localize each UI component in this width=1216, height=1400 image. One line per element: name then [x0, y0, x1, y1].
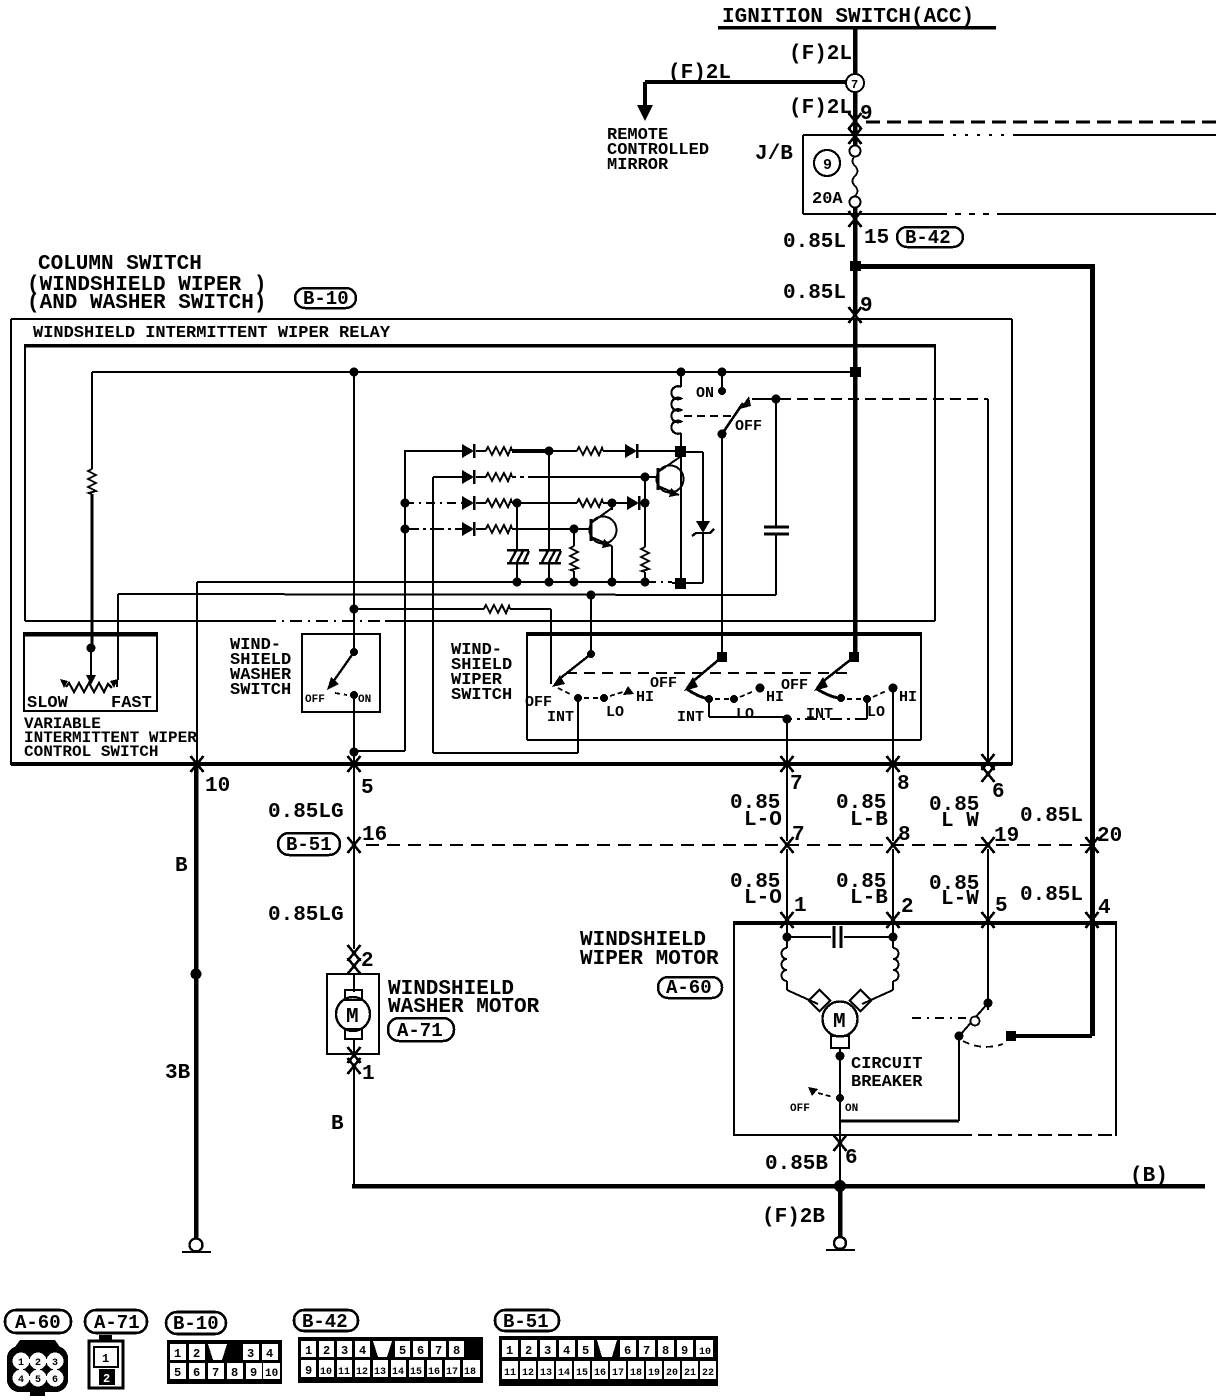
node base Q2 — [570, 525, 579, 534]
svg-text:10: 10 — [320, 1367, 332, 1378]
connector mark into J/B — [849, 128, 862, 144]
svg-text:13: 13 — [374, 1367, 386, 1378]
resistor R2 — [577, 447, 603, 455]
wire to remote mirror — [643, 80, 847, 106]
svg-text:19: 19 — [648, 1368, 660, 1379]
svg-text:2: 2 — [361, 950, 374, 973]
pole2 HI contact — [756, 684, 765, 693]
zener branch wire — [681, 452, 703, 521]
wire HI label upper — [836, 792, 888, 832]
svg-text:7: 7 — [643, 1344, 650, 1358]
svg-text:20A: 20A — [812, 190, 843, 209]
svg-text:OFF: OFF — [781, 677, 808, 694]
svg-text:5: 5 — [174, 1366, 181, 1380]
node motor lead LO — [783, 933, 792, 942]
node row3 right — [641, 499, 650, 508]
variable intermittent control switch box — [24, 633, 157, 711]
svg-text:B: B — [331, 1113, 344, 1136]
pole2 blade — [684, 657, 722, 691]
wire park motor mark — [982, 912, 995, 928]
svg-text:WASHER MOTOR: WASHER MOTOR — [388, 996, 540, 1019]
windshield wiper motor label — [580, 929, 719, 971]
choke coil L2 — [893, 937, 899, 990]
circuit breaker label — [851, 1055, 923, 1092]
svg-text:(F)2L: (F)2L — [668, 62, 731, 85]
pole1 OFF dash — [558, 688, 570, 694]
svg-text:BREAKER: BREAKER — [851, 1073, 923, 1092]
svg-text:6: 6 — [52, 1375, 58, 1386]
svg-text:MIRROR: MIRROR — [607, 156, 669, 175]
hatched element E2 — [539, 550, 561, 563]
svg-text:1: 1 — [18, 1358, 24, 1369]
wire HI mark at B-51 — [887, 837, 900, 853]
svg-text:10: 10 — [205, 775, 230, 798]
pole3 HI dash — [873, 691, 886, 697]
Q2 collector wire — [611, 503, 613, 510]
pot wiper arrow — [86, 648, 96, 685]
svg-text:10: 10 — [699, 1347, 711, 1358]
wire park mark at B-51 — [982, 837, 995, 853]
wire park lower run — [987, 849, 989, 1003]
variable intermittent wiper control switch label — [24, 715, 197, 761]
pole1 LO contact — [600, 694, 608, 702]
node rail x517 — [513, 578, 522, 587]
wire junction to column switch — [853, 271, 858, 313]
connector B-42 label — [294, 1310, 358, 1333]
windshield washer motor label — [388, 978, 540, 1019]
washer switch box — [302, 634, 380, 712]
pole1 HI dash — [610, 692, 623, 696]
connector B-51 face — [499, 1336, 718, 1386]
svg-text:(AND WASHER SWITCH): (AND WASHER SWITCH) — [27, 292, 266, 315]
wire LO lower run — [786, 849, 788, 937]
pole3 HI contact — [889, 684, 898, 693]
park switch mechanical link — [912, 1017, 966, 1019]
svg-text:B-51: B-51 — [503, 1311, 549, 1333]
svg-text:9: 9 — [681, 1344, 688, 1358]
Q2 emitter wire — [611, 546, 613, 583]
svg-text:6: 6 — [845, 1147, 858, 1170]
svg-text:8: 8 — [231, 1366, 238, 1380]
svg-text:0.85L: 0.85L — [1020, 884, 1083, 907]
resistor R3 — [486, 473, 512, 481]
node capacitor tap — [772, 395, 781, 404]
pole3 INT contact — [837, 694, 845, 702]
svg-text:5: 5 — [35, 1375, 41, 1386]
diode D2 — [625, 444, 637, 458]
wire to pin6 — [987, 399, 989, 762]
Q1 collector-emitter wire — [680, 452, 682, 584]
node breaker top — [836, 1052, 845, 1061]
svg-text:SWITCH: SWITCH — [230, 681, 291, 700]
svg-text:6: 6 — [992, 781, 1005, 804]
svg-text:22: 22 — [702, 1368, 714, 1379]
svg-text:6: 6 — [193, 1366, 200, 1380]
pole3 blade — [814, 657, 854, 691]
resistor R1 — [486, 447, 512, 455]
svg-text:B: B — [175, 855, 188, 878]
svg-text:11: 11 — [338, 1367, 350, 1378]
svg-text:1: 1 — [305, 1344, 312, 1358]
fuse 20A — [850, 146, 861, 208]
svg-text:18: 18 — [630, 1368, 642, 1379]
relay common wire — [752, 398, 988, 400]
svg-text:LO: LO — [736, 706, 754, 723]
svg-text:4: 4 — [18, 1375, 24, 1386]
resistor R8 — [486, 525, 512, 533]
B-51 dashed line — [366, 844, 1090, 846]
pin5 connector mark — [348, 756, 361, 772]
park feed wire — [1011, 1034, 1092, 1038]
svg-text:L-O: L-O — [744, 887, 782, 910]
svg-text:L-W: L-W — [941, 888, 979, 911]
diode D3 — [462, 470, 474, 484]
svg-text:0.85L: 0.85L — [783, 231, 846, 254]
svg-text:1: 1 — [174, 1347, 181, 1361]
svg-text:2: 2 — [35, 1358, 41, 1369]
svg-text:2: 2 — [525, 1344, 532, 1358]
capacitor wire lower — [775, 534, 777, 595]
svg-text:1: 1 — [102, 1352, 109, 1366]
svg-text:2: 2 — [323, 1344, 330, 1358]
svg-text:9: 9 — [305, 1364, 312, 1378]
svg-text:5: 5 — [582, 1344, 589, 1358]
pole1 INT contact — [574, 694, 582, 702]
svg-text:5: 5 — [361, 777, 374, 800]
wire park label upper — [929, 794, 979, 833]
dashed rail to right — [866, 121, 1216, 124]
remote controlled mirror label — [607, 126, 709, 175]
pole1 contact dash — [584, 697, 599, 699]
column switch label — [27, 253, 266, 315]
wiper switch box — [527, 632, 921, 740]
svg-text:OFF: OFF — [790, 1103, 810, 1115]
node row1 divider — [545, 447, 554, 456]
washer motor M1 — [336, 974, 370, 1054]
pin7 connector mark — [781, 756, 794, 772]
wire batt motor mark — [1086, 912, 1099, 928]
pole1 INT wire — [577, 698, 579, 753]
svg-text:7: 7 — [851, 78, 858, 92]
connector A-71 label — [85, 1310, 147, 1334]
wire LO motor mark — [781, 912, 794, 928]
connector B-10 label — [166, 1312, 226, 1335]
wire from ignition switch — [853, 29, 858, 75]
connector B-42 label — [897, 227, 963, 249]
svg-text:20: 20 — [666, 1368, 678, 1379]
motor pin6 wire — [839, 1121, 841, 1186]
pole3 LO contact — [863, 695, 871, 703]
resistor R6 — [641, 547, 649, 572]
pole1 HI arrow — [623, 686, 634, 695]
pin10 connector mark — [191, 756, 204, 772]
fuse circle 9 label — [814, 150, 840, 176]
pin7 output wire — [786, 719, 788, 841]
pin6 connector marks — [982, 754, 995, 782]
svg-text:CIRCUIT: CIRCUIT — [851, 1055, 922, 1074]
wire ignition to J/B — [853, 92, 858, 146]
potentiometer body — [60, 679, 118, 692]
svg-text:4: 4 — [359, 1344, 366, 1358]
node base Q1 — [641, 473, 650, 482]
svg-text:4: 4 — [1098, 897, 1111, 920]
pole2 LO contact — [730, 695, 738, 703]
washer switch blade — [327, 652, 354, 690]
svg-text:19: 19 — [994, 825, 1019, 848]
svg-text:6: 6 — [417, 1344, 424, 1358]
relay switch blade — [722, 396, 751, 434]
park switch left contact — [955, 1032, 964, 1041]
node collector Q2 — [608, 499, 617, 508]
relay supply rail — [92, 371, 855, 373]
diode D6 — [462, 522, 474, 536]
svg-text:5: 5 — [995, 895, 1008, 918]
svg-text:1: 1 — [506, 1344, 513, 1358]
INT feedback vertical x433 — [433, 477, 578, 753]
thick branch wire to right — [855, 264, 1095, 1036]
svg-text:WINDSHIELD INTERMITTENT WIPER: WINDSHIELD INTERMITTENT WIPER RELAY — [33, 324, 391, 343]
rail to pin10 — [196, 582, 198, 763]
pin1 connector marks — [348, 1047, 361, 1074]
node pot wiper feed — [87, 644, 96, 653]
svg-text:17: 17 — [446, 1367, 458, 1378]
connector A-71 oval — [388, 1018, 454, 1042]
wiper motor box — [734, 921, 1116, 1136]
svg-text:WIPER MOTOR: WIPER MOTOR — [580, 948, 719, 971]
wire HI label lower — [836, 871, 888, 910]
transistor Q1 — [657, 457, 684, 497]
pole3 hook — [817, 689, 838, 698]
svg-text:(B): (B) — [1130, 1165, 1168, 1188]
pole2 common wire — [721, 434, 723, 657]
svg-text:8: 8 — [897, 773, 910, 796]
svg-text:0.85B: 0.85B — [765, 1153, 828, 1176]
connector A-60 oval — [658, 977, 722, 999]
ON contact — [718, 387, 726, 395]
svg-text:7: 7 — [790, 773, 803, 796]
washer output wire — [350, 695, 359, 762]
svg-text:1: 1 — [362, 1063, 375, 1086]
hatched element E1 — [507, 550, 529, 563]
INT feedback vertical x405 — [354, 450, 410, 751]
resistor R6 wire — [644, 477, 646, 583]
capacitor C1 — [764, 527, 789, 534]
svg-text:L-B: L-B — [850, 887, 888, 910]
pin8 output wire — [892, 688, 894, 841]
zener diode ZD1 — [692, 521, 714, 583]
svg-text:13: 13 — [540, 1368, 552, 1379]
motor pin6 connector mark — [834, 1135, 847, 1151]
svg-text:16: 16 — [362, 824, 387, 847]
svg-text:10: 10 — [265, 1368, 278, 1380]
svg-text:9: 9 — [823, 157, 832, 174]
svg-text:B-42: B-42 — [905, 227, 951, 249]
svg-text:B-42: B-42 — [302, 1311, 348, 1333]
emitter rail — [197, 582, 703, 583]
svg-text:(F)2L: (F)2L — [789, 97, 852, 120]
svg-text:4: 4 — [266, 1347, 273, 1361]
svg-text:A-71: A-71 — [397, 1020, 443, 1042]
svg-text:21: 21 — [684, 1368, 696, 1379]
park switch blade — [961, 1003, 988, 1034]
wire HI motor mark — [887, 912, 900, 928]
connector B-51 marks — [348, 837, 361, 853]
svg-text:0.85L: 0.85L — [1020, 805, 1083, 828]
svg-text:8: 8 — [898, 824, 911, 847]
svg-text:7: 7 — [435, 1344, 442, 1358]
splice connector 7 — [846, 74, 864, 92]
node rail x549 — [545, 578, 554, 587]
windshield washer switch label — [230, 636, 292, 700]
wire J/B to junction — [853, 208, 858, 264]
svg-text:0.85L: 0.85L — [783, 282, 846, 305]
svg-text:M: M — [346, 1006, 359, 1029]
svg-text:L W: L W — [941, 810, 979, 833]
ground wire right — [838, 1189, 843, 1237]
pole3 contact dash — [847, 698, 861, 700]
washer motor ground wire — [331, 1068, 354, 1186]
pole3 pivot — [849, 652, 859, 662]
capacitor C2 wire — [787, 936, 893, 938]
svg-text:12: 12 — [356, 1367, 368, 1378]
svg-text:IGNITION SWITCH(ACC): IGNITION SWITCH(ACC) — [722, 6, 974, 29]
node rail x681 — [675, 578, 686, 589]
node washer feed — [350, 368, 359, 377]
main feed wire — [853, 319, 858, 655]
capacitor wire upper — [775, 399, 777, 527]
svg-text:0.85LG: 0.85LG — [268, 801, 344, 824]
svg-text:4: 4 — [563, 1344, 570, 1358]
svg-text:CONTROL SWITCH: CONTROL SWITCH — [24, 743, 158, 761]
row4 wire — [405, 528, 590, 530]
capacitor C2 — [834, 926, 841, 948]
node switch feed — [718, 368, 727, 377]
svg-text:3: 3 — [52, 1358, 58, 1369]
svg-text:ON: ON — [845, 1103, 858, 1115]
wire LO label upper — [730, 792, 782, 832]
transistor Q2 — [590, 508, 617, 548]
svg-text:INT: INT — [806, 706, 833, 723]
svg-text:9: 9 — [860, 295, 873, 318]
resistor R9 — [484, 605, 510, 613]
svg-text:2: 2 — [901, 896, 914, 919]
relay box — [25, 344, 935, 621]
connector A-60 face — [7, 1340, 68, 1396]
hatched element wire x517 — [516, 503, 518, 583]
pole2 HI dash — [740, 691, 754, 697]
row3 wire — [405, 502, 645, 504]
svg-text:B-51: B-51 — [286, 834, 332, 856]
connector mark out of J/B — [849, 211, 862, 227]
svg-text:HI: HI — [899, 689, 917, 706]
pole2 blade hook — [687, 689, 709, 699]
park switch dashed arc — [963, 1041, 1003, 1047]
node LO output — [783, 715, 792, 724]
wire batt mark at B-51 — [1086, 837, 1099, 853]
svg-text:5: 5 — [399, 1344, 406, 1358]
svg-text:3B: 3B — [165, 1062, 191, 1085]
washer ON contact — [350, 691, 358, 699]
svg-text:OFF: OFF — [650, 675, 677, 692]
svg-text:L-O: L-O — [744, 809, 782, 832]
node row3 tap — [513, 499, 522, 508]
left bias resistor wire — [91, 372, 93, 650]
svg-text:M: M — [833, 1011, 846, 1034]
park switch common — [984, 999, 993, 1011]
connector mark on dashed rail — [849, 113, 862, 129]
ground right — [826, 1237, 855, 1250]
J/B box — [803, 135, 1216, 214]
timing rail drop to pot — [117, 594, 119, 680]
connector B-42 face — [298, 1337, 483, 1383]
arrow to remote mirror — [637, 105, 653, 121]
wiper motor M2 — [787, 990, 893, 1056]
node rail x612 — [608, 578, 617, 587]
connector B-51 oval — [278, 833, 340, 856]
windshield wiper switch label — [451, 641, 512, 705]
resistor R5 wire — [573, 529, 575, 583]
pot fast-end wire — [116, 680, 118, 687]
svg-text:B-10: B-10 — [173, 1313, 219, 1335]
svg-text:COLUMN SWITCH: COLUMN SWITCH — [38, 253, 202, 276]
pole3 LO output wire — [791, 699, 867, 719]
pole2 INT contact — [705, 695, 713, 703]
diode D4 — [462, 496, 474, 510]
connector B-10 label — [295, 288, 356, 310]
timing rail — [118, 594, 776, 595]
svg-text:J/B: J/B — [755, 143, 793, 166]
svg-text:9: 9 — [250, 1366, 257, 1380]
svg-text:(F)2B: (F)2B — [762, 1206, 825, 1229]
svg-text:LO: LO — [867, 704, 885, 721]
svg-text:15: 15 — [576, 1368, 588, 1379]
left bias resistor — [88, 469, 96, 494]
outer column switch box — [11, 319, 1012, 766]
pole2 contact dash — [715, 698, 729, 700]
pole2 INT output wire — [709, 699, 787, 717]
washer motor box — [327, 974, 379, 1054]
svg-text:16: 16 — [594, 1368, 606, 1379]
park switch right contact — [1006, 1031, 1016, 1041]
circuit breaker — [790, 1056, 858, 1121]
svg-text:0.85LG: 0.85LG — [268, 904, 344, 927]
pin8 connector mark — [887, 756, 900, 772]
node coil feed — [677, 368, 686, 377]
ground wire B — [194, 766, 199, 1239]
resistor R4 — [486, 499, 512, 507]
svg-text:SWITCH: SWITCH — [451, 686, 512, 705]
node splice B — [191, 969, 202, 980]
svg-text:A-60: A-60 — [15, 1312, 61, 1334]
connector A-71 face — [89, 1335, 123, 1388]
node main feed — [850, 367, 861, 377]
svg-text:OFF: OFF — [305, 694, 325, 706]
washer sense wire — [350, 605, 552, 685]
svg-text:SLOW: SLOW — [27, 694, 69, 713]
row1 wire — [405, 449, 678, 453]
svg-text:18: 18 — [464, 1367, 476, 1378]
svg-text:ON: ON — [696, 385, 714, 402]
wire LO label lower — [730, 871, 782, 910]
node collector coil — [675, 446, 686, 457]
junction node — [850, 261, 861, 271]
choke coil L1 — [782, 937, 788, 990]
svg-text:17: 17 — [612, 1368, 624, 1379]
relay coil — [671, 372, 681, 452]
washer blade dash — [335, 693, 347, 695]
node motor lead HI — [889, 933, 898, 942]
diode D1 — [462, 444, 474, 458]
